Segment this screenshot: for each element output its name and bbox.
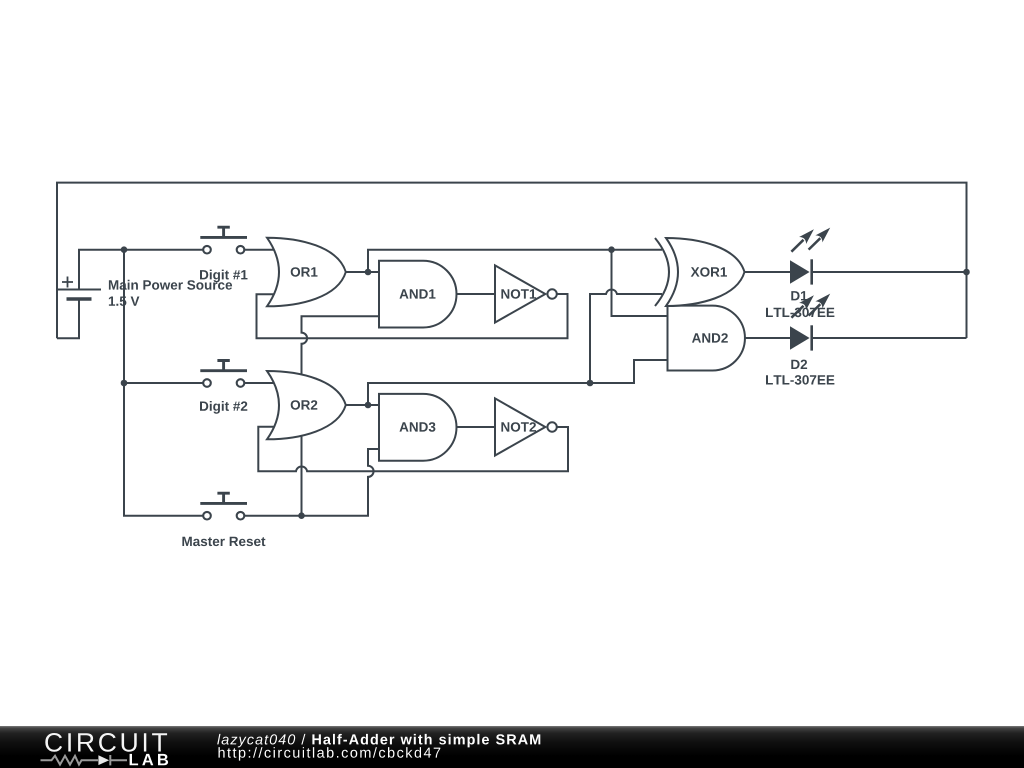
wire: Digit#1 switch to OR1 input — [245, 249, 274, 251]
wire: main vertical bus x=124 down to master reset rail — [124, 250, 203, 516]
label: AND3 — [400, 422, 436, 432]
label: Digit #1 — [200, 270, 248, 283]
wire: NOT2 output feedback loop to OR2 bottom input (hops x=301.5) — [258, 427, 568, 472]
label: D2 — [791, 360, 807, 369]
switch SW1 Digit#1 — [200, 227, 247, 253]
wire: OR1 output to AND1 top input — [346, 271, 379, 273]
wire: OR2 output to AND3 top input — [346, 404, 379, 406]
node: OR1 output junction — [365, 269, 372, 276]
op: XOR1 gate body — [666, 238, 745, 306]
footer: title text — [217, 734, 540, 748]
op: NOT2 bubble — [547, 422, 556, 431]
op: AND2 gate body — [668, 306, 745, 371]
label: D1 — [791, 291, 807, 300]
wire: AND3 bottom input down to master reset rail (hops feedback) — [245, 449, 379, 516]
wire: AND1 output to NOT1 — [457, 293, 496, 295]
switch SW2 Digit#2 — [200, 361, 247, 387]
battery V1 — [57, 277, 101, 300]
node: OR2 output junction — [365, 402, 372, 409]
op: OR2 gate body — [267, 371, 346, 439]
op: AND1 gate body — [379, 261, 457, 328]
switch SW3 Master Reset — [200, 493, 247, 519]
wire: AND1 bottom input down to master reset (hops feedback rail) — [302, 316, 380, 516]
node: Digit#2 rail junction — [121, 380, 128, 387]
logo: resistor zigzag and diode glyph — [41, 755, 128, 765]
label: OR1 — [291, 267, 318, 277]
label: LTL-307EE (D1) — [766, 308, 834, 318]
op: NOT1 triangle — [495, 265, 545, 322]
gates: white filled, drawn over wires — [267, 238, 745, 461]
label: NOT1 — [501, 289, 536, 299]
logo: LAB wordmark — [130, 754, 169, 765]
node: master reset junction — [298, 512, 305, 519]
label: XOR1 — [691, 267, 727, 277]
label: LTL-307EE (D2) — [766, 375, 834, 385]
label: Main Power Source — [109, 280, 232, 290]
wire: bus to Digit#2 switch — [124, 382, 203, 384]
wire: AND2 output to LED D2 — [745, 337, 790, 339]
wire: NOT1 output feedback loop to OR1 bottom input — [257, 294, 568, 338]
node: battery rail junction — [121, 246, 128, 253]
label: AND2 — [692, 333, 728, 342]
label: AND1 — [400, 289, 436, 298]
LED D1 — [790, 228, 830, 285]
op: NOT1 bubble — [547, 289, 556, 298]
logo: CIRCUIT wordmark — [45, 733, 167, 752]
wire: power frame top/left/right — [57, 183, 967, 339]
wire: XOR1 output to LED D1 — [745, 271, 791, 273]
wire: top rail branch down to AND2 top input — [612, 250, 668, 316]
op: NOT2 triangle — [495, 398, 545, 455]
node: top rail / AND2 branch junction — [608, 246, 615, 253]
op: XOR1 extra input arc — [655, 238, 669, 306]
node: cross rail junction — [587, 380, 594, 387]
label: 1.5 V — [109, 297, 139, 306]
wire: OR1 output up and right to XOR1 top input — [368, 250, 662, 272]
op: OR1 gate body — [267, 238, 346, 307]
label: Master Reset — [182, 537, 265, 546]
wire: XOR1 bottom input (hops vertical) and down to cross rail — [590, 289, 662, 383]
footer: url text — [219, 747, 441, 761]
LED D2 — [790, 294, 830, 351]
label: OR2 — [291, 400, 318, 410]
op: AND3 gate body — [379, 394, 457, 461]
wire: LED D1 cathode to right frame — [812, 271, 967, 273]
wire: LED D2 cathode to right frame — [812, 337, 967, 339]
label: Digit #2 — [200, 401, 247, 414]
footer bar — [0, 726, 1024, 768]
wire: battery negative return U — [57, 299, 79, 338]
wire: Digit#2 switch to OR2 input — [245, 382, 274, 384]
label: NOT2 — [501, 422, 536, 432]
node: right frame / D1 junction — [963, 269, 970, 276]
wire: AND3 output to NOT2 — [457, 426, 496, 428]
wire: OR2 output up to cross rail and to AND2 bottom input — [368, 360, 668, 405]
wire: battery positive up to top rail — [79, 250, 203, 290]
